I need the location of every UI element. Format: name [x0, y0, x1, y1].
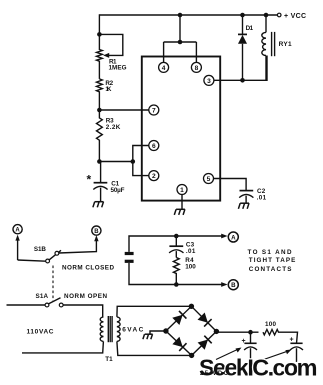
switch S1A pivot contact	[45, 303, 49, 307]
svg-text:1K: 1K	[105, 86, 111, 93]
wiper arrowhead of R1	[103, 53, 109, 58]
bridge diode top-left	[172, 315, 182, 325]
svg-text:5: 5	[207, 176, 211, 183]
pin 8	[191, 62, 201, 72]
svg-text:T1: T1	[105, 356, 113, 363]
node junction R4 bottom	[174, 282, 179, 287]
wire bracket to pin 6 and pin 2	[133, 146, 149, 176]
node junction D1 top	[240, 13, 245, 18]
node A2 circle	[228, 232, 238, 242]
node junction R1 top	[97, 32, 102, 37]
wire A down with arrowhead	[17, 240, 19, 261]
node junction rail riser	[178, 13, 183, 18]
bridge rectifier edges	[166, 306, 217, 355]
leader arrow to cap2	[258, 351, 289, 362]
wire riser to rail	[179, 15, 181, 42]
pin 7	[149, 105, 159, 115]
svg-text:S1B: S1B	[34, 246, 46, 253]
switch S1B throw contact	[55, 251, 59, 255]
svg-text:+: +	[242, 338, 246, 345]
svg-text:+ VCC: + VCC	[284, 13, 306, 20]
switch S1A blade	[49, 298, 61, 304]
bridge diode bottom-left	[172, 337, 182, 347]
wire switch to transformer	[63, 305, 103, 317]
svg-text:25 VDC: 25 VDC	[200, 371, 229, 377]
leader arrow to cap1	[216, 349, 239, 360]
node bridge bottom	[189, 353, 194, 358]
svg-text:A: A	[15, 228, 20, 234]
svg-text:50µF: 50µF	[111, 187, 125, 194]
ground under pin 1	[174, 209, 176, 215]
svg-text:2: 2	[152, 173, 156, 180]
node B circle	[92, 226, 101, 235]
wire A to switch pivot	[18, 260, 46, 261]
svg-text:D1: D1	[246, 25, 254, 32]
ground at bridge left	[143, 334, 145, 339]
svg-text:1: 1	[180, 187, 184, 194]
wire left branch down from rail	[98, 14, 100, 34]
capacitor filter 2	[290, 342, 302, 344]
svg-text:*: *	[87, 173, 92, 187]
wire top supply rail	[99, 14, 279, 16]
svg-text:100: 100	[265, 321, 276, 328]
pin 1	[177, 185, 187, 195]
wire junction to pins 6-2 bracket	[99, 161, 132, 163]
svg-text:.01: .01	[186, 248, 196, 255]
svg-text:7: 7	[152, 107, 156, 114]
node junction RY1 top	[264, 13, 269, 18]
svg-text:B: B	[231, 282, 236, 289]
svg-text:TO S1 AND: TO S1 AND	[248, 249, 292, 256]
wire pin4 riser	[163, 42, 165, 62]
wire throw to B	[59, 240, 97, 253]
svg-text:110VAC: 110VAC	[27, 329, 54, 336]
ground under C2	[238, 203, 240, 209]
node junction bracket mid	[178, 40, 183, 45]
wire pin1 stem	[181, 195, 183, 210]
capacitor C1	[100, 162, 102, 183]
wire bridge right to filter	[216, 331, 258, 333]
wire 110VAC top	[7, 304, 46, 306]
svg-text:.01: .01	[257, 195, 267, 202]
relay core lines	[271, 32, 273, 56]
node A circle	[13, 225, 22, 234]
node junction filter cap 1	[248, 330, 253, 335]
wire dashed gang link	[52, 266, 54, 302]
resistor R3 body	[97, 110, 103, 162]
svg-text:TIGHT TAPE: TIGHT TAPE	[249, 257, 295, 264]
svg-text:6VAC: 6VAC	[122, 327, 143, 334]
svg-text:100: 100	[185, 264, 196, 271]
node junction R3/C1/pins62	[97, 159, 102, 164]
capacitor C3	[175, 236, 177, 246]
wire pin8 riser	[195, 42, 197, 62]
svg-text:NORM OPEN: NORM OPEN	[64, 293, 107, 300]
wire A-line to C3 net	[129, 236, 224, 252]
wire secondary bottom to bridge	[117, 341, 192, 355]
svg-text:3: 3	[207, 78, 211, 85]
svg-text:S1A: S1A	[36, 293, 49, 300]
node B2 circle	[228, 280, 238, 290]
capacitor coupling thick plates	[125, 252, 134, 255]
switch S1B pivot contact	[46, 259, 50, 263]
wire pin3 to D1/RY1	[214, 56, 267, 81]
svg-text:8: 8	[195, 65, 199, 72]
svg-text:RY1: RY1	[279, 41, 292, 48]
diode D1	[242, 15, 244, 34]
pin 2	[149, 171, 159, 181]
node bridge left	[163, 328, 168, 333]
wire 4-8 bracket	[164, 41, 197, 43]
op-amp timer IC U1 box	[142, 57, 220, 201]
svg-text:A: A	[231, 234, 236, 241]
pin 5	[204, 174, 214, 184]
resistor R1 body	[97, 34, 103, 79]
wire to pin 7	[99, 109, 148, 111]
svg-text:+: +	[290, 337, 294, 344]
node bridge top	[189, 304, 194, 309]
node bridge right	[214, 329, 219, 334]
svg-text:CONTACTS: CONTACTS	[249, 266, 292, 273]
switch S1A throw contact	[59, 303, 63, 307]
node junction bracket	[131, 159, 136, 164]
svg-text:6: 6	[152, 143, 156, 150]
relay coil RY1	[265, 15, 267, 32]
resistor R2 body	[97, 79, 103, 110]
capacitor C2	[240, 190, 254, 192]
terminal +VCC	[277, 13, 281, 17]
capacitor filter 1	[250, 332, 252, 343]
node junction C3 top	[174, 234, 179, 239]
transformer T1 primary	[100, 317, 103, 342]
bridge diode top-right	[198, 313, 208, 323]
node junction D1 bottom	[240, 78, 245, 83]
pin 4	[159, 62, 169, 72]
wire secondary top to bridge	[117, 306, 191, 317]
wire pin5 to C2	[214, 179, 247, 191]
resistor R4 body	[173, 258, 179, 285]
svg-text:4: 4	[162, 65, 166, 72]
svg-text:B: B	[94, 229, 99, 235]
resistor 100 body	[263, 330, 298, 344]
node junction pin7/R2/R3	[97, 108, 102, 113]
transformer core	[107, 316, 109, 342]
pin 6	[149, 141, 159, 151]
bridge diode bottom-right	[198, 340, 208, 350]
transformer T1 secondary	[117, 317, 120, 342]
svg-text:2.2K: 2.2K	[106, 124, 121, 131]
svg-text:1MEG: 1MEG	[109, 65, 127, 72]
switch S1B blade	[49, 250, 61, 259]
wire R1 wiper loop	[99, 34, 122, 55]
wire bridge left to ground	[150, 331, 166, 334]
pin 3	[204, 75, 214, 85]
wire cap to B-line	[129, 263, 224, 285]
ground under C1	[93, 202, 95, 208]
svg-text:NORM CLOSED: NORM CLOSED	[62, 264, 114, 271]
svg-text:SeekIC.com: SeekIC.com	[199, 354, 318, 380]
